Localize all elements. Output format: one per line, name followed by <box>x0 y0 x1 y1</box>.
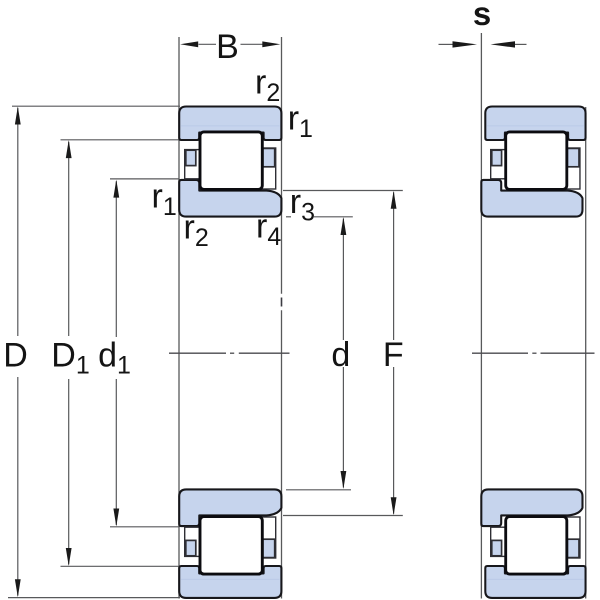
svg-text:D: D <box>3 337 28 375</box>
dimension d1 <box>110 178 179 180</box>
left view face/bore line left <box>178 37 180 599</box>
outer ring lower-right <box>485 566 585 598</box>
outer ring upper-right <box>485 107 585 141</box>
inner ring upper-left <box>179 180 281 217</box>
right view outer edge line <box>585 107 587 599</box>
dimension D1 <box>61 139 179 141</box>
center line left view <box>169 352 226 354</box>
inner ring upper-right <box>481 180 582 217</box>
dimension d <box>286 216 291 218</box>
rollers and cage upper-left <box>185 132 276 190</box>
svg-text:F: F <box>383 336 404 374</box>
outer ring lower-left <box>179 566 281 598</box>
svg-text:s: s <box>473 0 491 32</box>
rollers and cage lower-right <box>491 517 580 575</box>
dimension D <box>12 105 180 107</box>
inner ring lower-left <box>179 489 281 526</box>
dimension F <box>283 190 403 192</box>
rollers and cage upper-right <box>491 132 580 190</box>
left view face/bore line right <box>281 37 283 294</box>
svg-text:B: B <box>216 28 239 66</box>
right view inner-ring face line (s) <box>480 33 482 599</box>
dimension s <box>439 43 453 45</box>
inner ring lower-right <box>481 489 582 526</box>
dimension B <box>199 43 217 45</box>
center line right view <box>472 352 528 354</box>
svg-text:d: d <box>331 336 350 374</box>
outer ring upper-left <box>179 107 281 141</box>
rollers and cage lower-left <box>185 517 276 575</box>
